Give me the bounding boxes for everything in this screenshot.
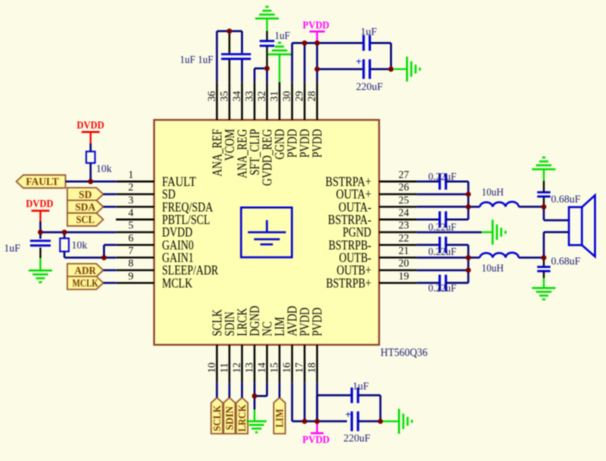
svg-text:30: 30 (282, 91, 293, 102)
svg-text:220uF: 220uF (344, 434, 371, 445)
svg-text:20: 20 (399, 259, 410, 270)
svg-text:21: 21 (399, 246, 410, 257)
svg-text:18: 18 (307, 363, 318, 374)
svg-text:0.68uF: 0.68uF (551, 256, 581, 267)
svg-text:17: 17 (295, 363, 306, 374)
svg-text:1uF 1uF: 1uF 1uF (180, 55, 214, 66)
svg-text:26: 26 (399, 183, 410, 194)
svg-text:7: 7 (128, 246, 133, 257)
svg-text:10k: 10k (96, 164, 113, 175)
svg-text:DVDD: DVDD (77, 121, 104, 132)
svg-text:14: 14 (257, 362, 268, 373)
svg-text:22: 22 (399, 233, 410, 244)
svg-text:9: 9 (128, 271, 133, 282)
svg-text:HT560Q36: HT560Q36 (381, 347, 428, 359)
svg-text:33: 33 (245, 91, 256, 102)
svg-text:BSTRPB+: BSTRPB+ (326, 275, 371, 290)
svg-text:16: 16 (282, 363, 293, 374)
svg-text:34: 34 (232, 90, 243, 101)
svg-text:19: 19 (399, 271, 410, 282)
svg-text:29: 29 (295, 91, 306, 102)
svg-text:11: 11 (219, 363, 230, 373)
svg-text:10k: 10k (72, 241, 89, 252)
svg-text:+: + (356, 57, 362, 68)
svg-text:3: 3 (128, 195, 133, 206)
svg-text:8: 8 (128, 259, 133, 270)
svg-text:LIM: LIM (275, 408, 286, 427)
svg-text:1uF: 1uF (4, 244, 21, 255)
svg-text:DVDD: DVDD (26, 199, 53, 210)
svg-text:+: + (345, 410, 351, 421)
svg-text:220uF: 220uF (356, 82, 383, 93)
svg-text:SCL: SCL (76, 215, 95, 226)
svg-text:PVDD: PVDD (310, 129, 325, 158)
svg-text:28: 28 (307, 91, 318, 102)
svg-text:PVDD: PVDD (302, 435, 329, 446)
svg-text:13: 13 (245, 363, 256, 374)
svg-text:FAULT: FAULT (26, 177, 59, 188)
svg-text:MCLK: MCLK (72, 279, 98, 290)
svg-text:0.68uF: 0.68uF (551, 194, 581, 205)
svg-text:1: 1 (128, 170, 133, 181)
svg-text:10: 10 (207, 363, 218, 374)
svg-text:32: 32 (257, 91, 268, 102)
svg-text:MCLK: MCLK (162, 275, 193, 290)
svg-text:25: 25 (399, 195, 410, 206)
svg-text:24: 24 (399, 208, 410, 219)
svg-text:PVDD: PVDD (310, 308, 325, 337)
svg-text:15: 15 (270, 363, 281, 374)
svg-text:12: 12 (232, 363, 243, 374)
svg-text:ADR: ADR (75, 266, 97, 277)
svg-text:10uH: 10uH (482, 264, 504, 275)
svg-text:1uF: 1uF (361, 27, 378, 38)
svg-text:1uF: 1uF (275, 31, 291, 42)
svg-text:0.22uF: 0.22uF (428, 172, 457, 183)
svg-text:10uH: 10uH (482, 188, 504, 199)
svg-text:SDIN: SDIN (225, 406, 236, 431)
svg-text:2: 2 (128, 183, 133, 194)
svg-text:23: 23 (399, 221, 410, 232)
svg-text:31: 31 (270, 91, 281, 102)
svg-text:SCLK: SCLK (213, 405, 224, 431)
svg-text:0.22uF: 0.22uF (428, 247, 457, 258)
svg-text:36: 36 (207, 91, 218, 102)
svg-text:0.22uF: 0.22uF (428, 284, 457, 295)
svg-text:6: 6 (128, 233, 133, 244)
svg-text:5: 5 (128, 221, 133, 232)
svg-text:SDA: SDA (75, 202, 96, 213)
svg-text:LRCK: LRCK (238, 404, 249, 431)
svg-text:PVDD: PVDD (303, 21, 330, 32)
svg-text:4: 4 (128, 208, 134, 219)
svg-text:27: 27 (399, 170, 410, 181)
svg-text:35: 35 (219, 91, 230, 102)
svg-text:1uF: 1uF (353, 382, 370, 393)
svg-text:SD: SD (79, 190, 92, 201)
